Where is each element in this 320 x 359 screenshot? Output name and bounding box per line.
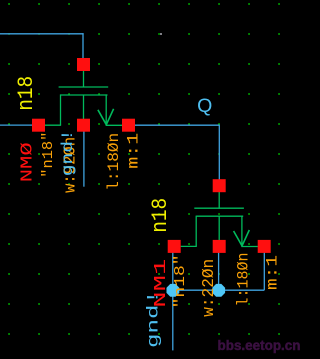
wire: NM1 bulk drop to gnd rail (218, 252, 220, 290)
junction solder dot (NM1 drain / gnd rail) (167, 284, 180, 297)
transistor NM1: source leg (241, 216, 243, 247)
transistor NM0: source arrow (98, 110, 106, 125)
transistor NM0: gate plate (59, 86, 109, 88)
wire: gnd rail horizontal (173, 289, 264, 291)
wire: NM1 drain gnd stub (long vertical) (172, 252, 174, 350)
wire: node Q horizontal (NM0 source to corner) (135, 124, 219, 126)
transistor NM1: source arrow (234, 231, 242, 246)
transistor NM0: drain leg (60, 94, 62, 125)
transistor NM0: gate lead (83, 71, 85, 88)
transistor NM0: source pin square (122, 119, 135, 132)
svg-text:l:18Øn: l:18Øn (105, 133, 123, 191)
transistor NM1: bulk leg (218, 216, 220, 240)
transistor NM0: bulk leg (83, 95, 85, 119)
svg-text:bbs.eetop.cn: bbs.eetop.cn (218, 338, 301, 353)
svg-text:n18: n18 (148, 198, 173, 233)
transistor NM0: drain pin square (32, 119, 45, 132)
svg-text:Q: Q (197, 95, 212, 117)
transistor NM1: drain pin square (168, 240, 181, 253)
junction solder dot (NM1 bulk / gnd rail) (212, 284, 225, 297)
transistor NM0: channel (61, 94, 108, 96)
wire: NM1 source drop to gnd rail (263, 252, 265, 290)
wire: input net to NM0 gate (horizontal) (0, 33, 84, 35)
transistor NM0: source leg (105, 94, 107, 125)
svg-text:w:22Øn: w:22Øn (200, 259, 219, 317)
transistor NM1: drain leg (195, 216, 197, 247)
wire: left net into NM0 drain (0, 124, 33, 126)
svg-text:gnd!: gnd! (59, 129, 77, 176)
wire: NM0 bulk gnd stub (83, 131, 85, 186)
svg-text:"n18": "n18" (172, 254, 189, 308)
transistor NM1: gate pin square (213, 179, 226, 192)
svg-text:m:1: m:1 (264, 255, 282, 290)
svg-text:n18: n18 (14, 76, 39, 111)
transistor NM0: gate pin square (77, 58, 90, 71)
transistor NM1: gate plate (194, 207, 244, 209)
svg-text:NMØ: NMØ (18, 142, 37, 182)
transistor NM1: channel (196, 215, 243, 217)
stray white grid dot (160, 33, 162, 35)
grid dots (8, 3, 280, 335)
transistor NM1: source pin square (258, 240, 271, 253)
svg-text:gnd!: gnd! (145, 290, 163, 348)
transistor NM1: bulk pin square (213, 240, 226, 253)
wire: input net to NM0 gate (vertical drop) (82, 33, 84, 59)
svg-text:m:1: m:1 (124, 133, 142, 169)
svg-text:"n18": "n18" (40, 132, 57, 178)
transistor NM0: bulk pin square (77, 119, 90, 132)
svg-text:l:18Øn: l:18Øn (235, 253, 253, 307)
wire: node Q vertical (corner down to NM1 gate) (218, 125, 220, 180)
transistor NM1: gate lead (218, 192, 220, 209)
